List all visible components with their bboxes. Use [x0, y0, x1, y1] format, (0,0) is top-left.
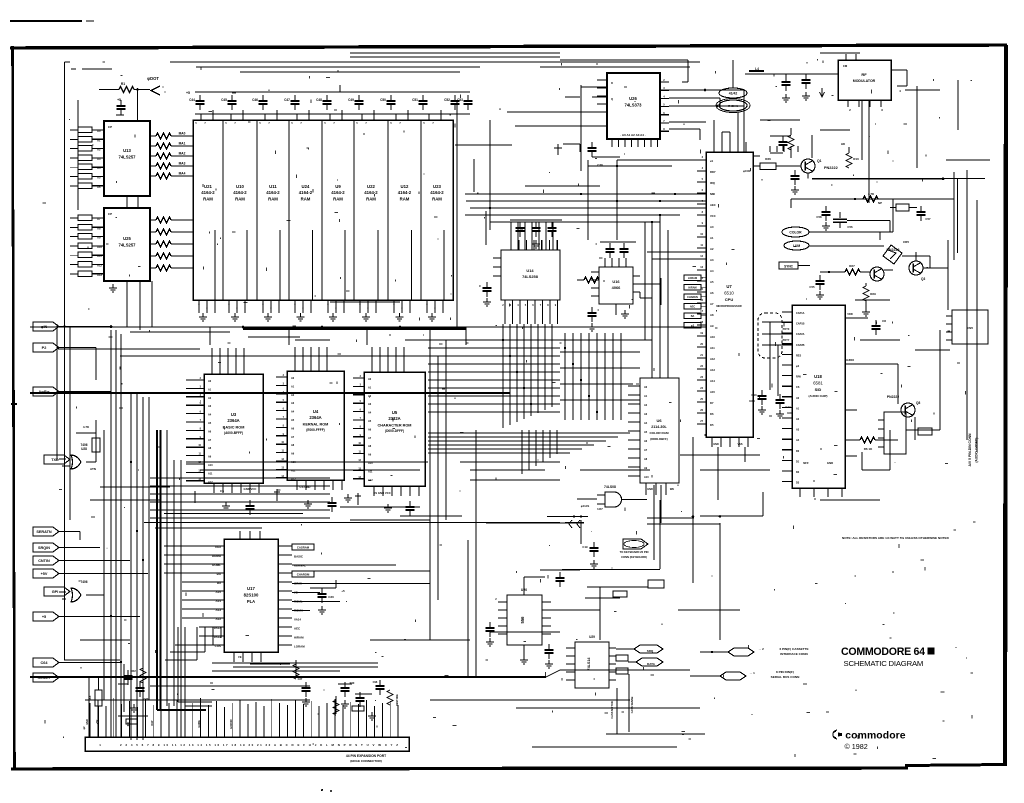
capacitor C14 sid [776, 394, 794, 418]
wire kb row 2 [150, 493, 330, 495]
border frame bottom left [11, 768, 908, 769]
border tick left [11, 403, 17, 405]
title underline top-left [10, 20, 94, 22]
wire misc 9 [340, 506, 420, 508]
wire oval feed vertical [732, 60, 734, 88]
RAM internal pin lines [215, 230, 444, 300]
bus vertical group C [167, 430, 181, 737]
svg-text:A2: A2 [97, 148, 101, 152]
connector arrow cassette 1 [700, 647, 809, 656]
svg-text:U25: U25 [123, 236, 131, 241]
svg-text:A12: A12 [97, 264, 102, 268]
wire bl vert extras [83, 677, 94, 737]
svg-text:C46: C46 [252, 98, 258, 102]
RF modulator bottom pins [848, 100, 883, 112]
IC U5 CHAR ROM [364, 372, 425, 486]
wire user port v [629, 674, 634, 732]
svg-text:A1: A1 [710, 236, 714, 240]
svg-text:RAM: RAM [268, 197, 278, 202]
svg-text:INTERFACE CONN: INTERFACE CONN [780, 652, 808, 656]
svg-text:GND: GND [647, 487, 653, 491]
connector flag TXD [44, 455, 70, 464]
IC U20 556 timer [507, 588, 542, 645]
svg-text:RDY: RDY [710, 170, 716, 174]
wire misc 5 [905, 89, 940, 91]
U14 bottom pins [502, 300, 557, 324]
wire y145 stub [455, 144, 512, 146]
svg-text:C13: C13 [751, 393, 757, 397]
+5V rail label [186, 91, 190, 95]
wire clock bus 1 [808, 173, 985, 180]
svg-text:6 PIN(F) CASSETTE: 6 PIN(F) CASSETTE [779, 647, 808, 651]
svg-text:A13: A13 [97, 273, 102, 277]
connector arrow serial 2 [628, 658, 663, 666]
svg-text:VA14: VA14 [294, 618, 301, 622]
connector flag +5 [33, 612, 59, 621]
svg-text:1000: 1000 [749, 399, 755, 403]
svg-text:CHARACTER ROM: CHARACTER ROM [378, 424, 412, 428]
svg-text:HD: HD [841, 142, 845, 146]
wire bottom h671 [212, 670, 340, 672]
wire U26 left long 3 [499, 107, 607, 112]
connector flag SRQIN [33, 543, 59, 552]
wire right bottom hook [862, 430, 890, 470]
wire kb conn v660 [659, 500, 661, 569]
IC U13 74LS257 [104, 121, 150, 196]
U16 bottom [588, 304, 630, 331]
border frame bottom right [905, 765, 1007, 766]
U26 right pin wires [669, 89, 744, 129]
svg-text:MODULATOR: MODULATOR [853, 79, 876, 83]
svg-text:A: A [499, 107, 501, 111]
wire misc 1 [350, 52, 560, 54]
svg-text:VCC: VCC [710, 214, 716, 218]
expansion port left labels [86, 719, 233, 729]
svg-text:A12: A12 [215, 617, 221, 621]
U17 right lower wires [292, 593, 340, 611]
svg-text:A12: A12 [208, 481, 213, 484]
svg-text:A1: A1 [97, 138, 101, 142]
resistor pack labels upper [97, 129, 101, 189]
svg-text:4164-2: 4164-2 [299, 190, 313, 195]
wire top bus 2 [208, 66, 690, 68]
OR gate G1 7406 [71, 443, 96, 471]
wire cpu to bus [617, 160, 706, 240]
capacitor C59 series [833, 212, 853, 229]
svg-text:U28: U28 [81, 447, 87, 451]
svg-text:6581: 6581 [813, 381, 823, 386]
wire misc 16 [820, 499, 880, 501]
wire vert center x476 [475, 430, 477, 677]
wire left vertical 2 [77, 100, 79, 210]
wire vert x70 [69, 327, 71, 520]
connector flag RESET [33, 673, 59, 682]
svg-text:A11: A11 [97, 254, 102, 258]
wire left tall vertical [64, 62, 66, 660]
wire misc 3 [820, 129, 850, 131]
wire right bus b [966, 170, 968, 440]
wire bottom h700 [430, 699, 630, 701]
svg-text:4164-2: 4164-2 [233, 190, 247, 195]
bus horizontal crossing group [428, 340, 560, 412]
U29 left pins [566, 648, 575, 680]
wire bottom h708 [516, 707, 700, 709]
wire sid right cap [845, 318, 886, 335]
connector flag SERATN [33, 527, 59, 536]
svg-text:C19: C19 [582, 545, 588, 549]
svg-text:CHAROM: CHAROM [297, 573, 310, 577]
U17 top pin [240, 531, 260, 539]
capacitor row bus [195, 85, 470, 114]
U17 pin labels left [212, 545, 222, 648]
svg-text:C14: C14 [785, 405, 791, 409]
bus mid dots [489, 193, 676, 209]
U6 top wires [645, 214, 668, 378]
svg-text:LUM: LUM [793, 244, 801, 248]
IC U3 BASIC ROM [204, 374, 263, 483]
wire vert center x430 [429, 330, 431, 640]
svg-text:(AUDIO / VIDEO): (AUDIO / VIDEO) [975, 438, 979, 463]
connector flag P2 [33, 343, 59, 352]
U14 left cap [479, 258, 501, 306]
svg-text:+5: +5 [117, 98, 121, 102]
wire clock vert pair right [954, 172, 958, 260]
svg-text:CP: CP [108, 125, 112, 129]
connector box far right [946, 310, 988, 344]
svg-text:(AUDIO CHIP): (AUDIO CHIP) [809, 394, 828, 398]
capacitor row above RAM [189, 95, 472, 110]
wire kb row 0 [150, 477, 330, 479]
RAM bottom pin numbers [198, 302, 436, 310]
svg-text:CHAREN: CHAREN [687, 296, 698, 299]
svg-text:MA3: MA3 [179, 162, 186, 166]
svg-text:U14: U14 [526, 268, 534, 273]
RAM top pins [201, 110, 441, 120]
bus main horizontal 2 [30, 392, 510, 394]
PLA bottom step wires [165, 627, 221, 660]
wire vert x490 up [489, 120, 491, 230]
bus mid h2 [466, 200, 706, 202]
wire top right of border [196, 66, 230, 68]
svg-text:CS GND VCC: CS GND VCC [373, 491, 391, 495]
wire y516 mid [547, 515, 588, 517]
U5 top pins [372, 347, 404, 372]
svg-text:A15: A15 [710, 390, 715, 394]
svg-text:MA1: MA1 [179, 142, 186, 146]
svg-text:AEC: AEC [690, 306, 695, 309]
wire x474 v [473, 159, 475, 192]
svg-text:© 1982: © 1982 [845, 742, 868, 751]
wire bottom h685 [150, 685, 310, 687]
svg-text:→ 1: → 1 [749, 671, 755, 675]
crystal Y1 [890, 199, 931, 221]
svg-text:CR5: CR5 [903, 240, 909, 244]
wire bottom h667 [233, 666, 378, 668]
svg-text:U24: U24 [302, 184, 310, 189]
wire top left corner hook [65, 62, 77, 69]
elbow bus L2 [185, 627, 212, 706]
connector oval P3 [719, 88, 747, 98]
oval kb flag [620, 539, 649, 559]
wire h 349 [58, 348, 200, 350]
svg-text:U7: U7 [726, 284, 732, 289]
wire U25 bottom drop [127, 281, 152, 330]
svg-text:Q3: Q3 [921, 277, 925, 281]
wire top right vertical 1 [862, 100, 869, 203]
svg-text:RF: RF [861, 72, 867, 77]
wire y523 mid [400, 522, 573, 524]
svg-text:φCAS: φCAS [581, 504, 589, 508]
elbow bus L3 [178, 627, 212, 702]
svg-text:R CH 1: R CH 1 [728, 104, 738, 108]
svg-text:CONN (KEYBOARD): CONN (KEYBOARD) [621, 555, 647, 559]
svg-text:RAM: RAM [432, 197, 442, 202]
connector flag +5V [33, 569, 59, 578]
svg-text:8 PIN DIN(F): 8 PIN DIN(F) [776, 670, 794, 674]
svg-text:U17: U17 [247, 586, 255, 591]
svg-text:C20: C20 [144, 697, 149, 701]
svg-text:CPU: CPU [725, 297, 734, 302]
U17 left pins [164, 546, 224, 645]
capacitor C55 [809, 275, 824, 299]
svg-text:SYNC: SYNC [784, 264, 794, 268]
wire ram right v [454, 95, 456, 140]
wire flags lower 3 [59, 560, 130, 562]
svg-text:RESTORE: RESTORE [396, 694, 399, 706]
connector flag C64 [33, 658, 59, 667]
svg-text:CASS SENSE: CASS SENSE [630, 696, 634, 713]
wire top right h2 [820, 52, 860, 54]
svg-text:AφRφ: AφRφ [39, 390, 50, 394]
rom gnd symbols [222, 494, 392, 512]
small box audio filter [918, 428, 932, 435]
wire top right long down [916, 86, 918, 168]
svg-text:A7: A7 [710, 302, 714, 306]
svg-text:GND: GND [713, 443, 719, 446]
wire misc 14 [680, 454, 760, 456]
svg-text:C30: C30 [328, 595, 334, 599]
wire cpu feed y259 [652, 258, 706, 260]
svg-text:CAP1A: CAP1A [796, 312, 805, 315]
bus main horizontal 1 thick overlay [243, 327, 466, 330]
svg-text:C45: C45 [221, 98, 227, 102]
wire c59 h [847, 221, 890, 233]
svg-text:P2: P2 [42, 346, 47, 350]
wire color wire [809, 245, 884, 247]
border frame top [10, 45, 1007, 48]
IC U29 74LS14 [575, 635, 609, 688]
svg-text:82S100: 82S100 [244, 593, 259, 598]
svg-text:R29: R29 [870, 292, 876, 296]
U17 right long wires [292, 565, 660, 584]
svg-text:COLOR RAM: COLOR RAM [649, 431, 668, 435]
note text line [842, 536, 950, 540]
wire mid verticals right [654, 437, 720, 640]
svg-text:C: C [479, 284, 481, 288]
svg-text:A7: A7 [97, 217, 101, 221]
svg-text:D7: D7 [710, 401, 714, 405]
bus vertical group B thick pair [157, 430, 161, 710]
svg-text:C48: C48 [316, 98, 322, 102]
svg-text:NP: NP [878, 201, 882, 205]
svg-text:74LS08: 74LS08 [604, 485, 616, 489]
cluster exp right parts [333, 680, 399, 720]
U29 right pins [609, 648, 628, 680]
svg-text:D: D [611, 81, 613, 85]
CPU port boxed labels [684, 275, 706, 328]
Q1 top network [770, 128, 798, 158]
svg-text:CS: CS [220, 489, 224, 493]
U18 right pins [845, 312, 857, 456]
svg-text:R/W: R/W [796, 376, 802, 379]
svg-text:(E000-FFFF): (E000-FFFF) [306, 428, 324, 432]
wire misc 7 [64, 659, 120, 661]
capacitor C13 sid [749, 390, 766, 414]
wire bottom h 640 [370, 632, 560, 640]
bus mid h1 [465, 193, 706, 195]
svg-text:C56: C56 [847, 225, 853, 229]
wire misc 21 [855, 299, 890, 301]
border frame right [1005, 45, 1006, 766]
svg-text:BA: BA [691, 315, 695, 318]
svg-text:(D000-DFFF): (D000-DFFF) [385, 429, 404, 433]
wire xtal down [860, 215, 893, 232]
resistor pack boxes upper [70, 127, 92, 188]
svg-text:HIRAM: HIRAM [294, 636, 304, 640]
connector oval color [782, 227, 809, 237]
U7 pin labels [710, 159, 716, 427]
svg-text:MA2: MA2 [179, 152, 186, 156]
U17 pin labels right [292, 544, 314, 649]
svg-text:AEC: AEC [710, 203, 716, 207]
svg-text:A6: A6 [710, 291, 714, 295]
wire left mid h2 [90, 499, 160, 501]
svg-text:A10: A10 [208, 464, 213, 467]
svg-text:RAM: RAM [301, 197, 311, 202]
svg-text:556: 556 [520, 616, 525, 624]
svg-text:A2: A2 [710, 247, 714, 251]
svg-text:74LS257: 74LS257 [119, 243, 137, 248]
wire kb h528 [155, 527, 262, 529]
svg-text:C27: C27 [298, 677, 303, 681]
svg-text:. A0 A1 A2 A3 A4 .: . A0 A1 A2 A3 A4 . [620, 133, 645, 137]
resistor pack stubs upper [92, 130, 104, 186]
svg-text:A/V 5 PIN-DIN CONN: A/V 5 PIN-DIN CONN [968, 433, 972, 467]
resistor pack boxes lower [70, 215, 92, 276]
svg-text:U12: U12 [401, 184, 409, 189]
RAM ground symbols [199, 313, 436, 321]
wire kb long 2 [200, 469, 420, 471]
svg-text:RAM: RAM [366, 197, 376, 202]
svg-text:CNTIN: CNTIN [38, 559, 50, 563]
node phi-dot input [99, 76, 166, 95]
svg-text:U18: U18 [814, 374, 822, 379]
svg-text:A13: A13 [710, 368, 715, 372]
svg-text:A12: A12 [710, 357, 715, 361]
wire rbh2 [906, 330, 940, 430]
wire vert x457 [456, 100, 458, 327]
wire flags lower 6 [59, 662, 120, 664]
wire U26 left long 1 [581, 86, 607, 88]
svg-text:C47: C47 [284, 98, 290, 102]
svg-text:GPI: GPI [52, 590, 59, 594]
RAM chip labels [201, 184, 444, 202]
bus right horizontals [560, 340, 652, 400]
bus address vertical group [565, 333, 621, 420]
svg-text:U21: U21 [204, 184, 212, 189]
svg-text:WE: WE [670, 487, 674, 491]
resistor audio [845, 437, 898, 451]
svg-text:ATN: ATN [90, 467, 96, 471]
svg-text:GAME: GAME [198, 720, 201, 728]
svg-text:BASIC: BASIC [294, 555, 304, 559]
IC U6 2114 color RAM [640, 378, 679, 483]
svg-text:C51: C51 [412, 98, 418, 102]
wire bottom h663 [212, 662, 378, 664]
U17 right pins [278, 546, 292, 645]
wire misc 4 [760, 119, 800, 121]
wire U26 top feed [560, 60, 688, 82]
wire video out right [923, 240, 948, 310]
svg-text:RAM: RAM [235, 197, 245, 202]
svg-text:LORAM: LORAM [294, 645, 305, 649]
svg-text:PN2222: PN2222 [887, 395, 899, 399]
wire top bus 1 [170, 61, 700, 63]
cap 556 b [545, 644, 554, 668]
wire serial drop [610, 688, 617, 734]
RAM top pin numbers [195, 122, 434, 125]
wire flags lower 5 [59, 616, 140, 618]
wire into gate [577, 499, 597, 508]
svg-text:74LS14: 74LS14 [587, 657, 591, 671]
svg-text:4.7K: 4.7K [83, 425, 90, 429]
svg-text:POTY: POTY [783, 339, 790, 342]
U16 left pins [577, 272, 599, 296]
U16 top pins [600, 242, 636, 267]
cluster kb small parts [118, 664, 149, 724]
resistor R10 right [841, 142, 859, 168]
U4 left pins [276, 374, 296, 481]
wire misc 15 [700, 469, 770, 471]
wire gate2 in [59, 592, 66, 599]
svg-text:C96: C96 [373, 680, 378, 684]
capacitor C37 at RF [770, 74, 838, 89]
svg-text:C53: C53 [457, 98, 463, 102]
svg-text:CP: CP [108, 212, 112, 216]
svg-text:U9: U9 [335, 184, 341, 189]
svg-text:A0: A0 [97, 129, 101, 133]
svg-text:U16: U16 [612, 279, 620, 284]
svg-text:Q1: Q1 [817, 159, 822, 163]
svg-text:(EDGE CONNECTOR): (EDGE CONNECTOR) [350, 759, 382, 763]
break symbol [569, 520, 580, 528]
wire bottom h 610 [678, 609, 740, 611]
svg-text:C44: C44 [189, 98, 195, 102]
border frame left [13, 46, 15, 769]
svg-text:CAP2A: CAP2A [796, 333, 805, 336]
wire flags lower 1 [59, 532, 80, 541]
cap 556 left [486, 622, 495, 646]
svg-text:R10: R10 [853, 157, 859, 161]
U3 top pins [212, 348, 244, 374]
svg-text:PN2222: PN2222 [824, 166, 838, 170]
rom caps [192, 489, 415, 516]
bus riser ticks [210, 326, 466, 345]
U26 left pins [597, 80, 613, 112]
svg-text:NOTE: ALL RESISTORS ARE 1/4 W: NOTE: ALL RESISTORS ARE 1/4 WATT 5% UNLE… [842, 536, 950, 540]
svg-text:74LS257: 74LS257 [119, 155, 137, 160]
wire kb row 4 [150, 509, 330, 511]
